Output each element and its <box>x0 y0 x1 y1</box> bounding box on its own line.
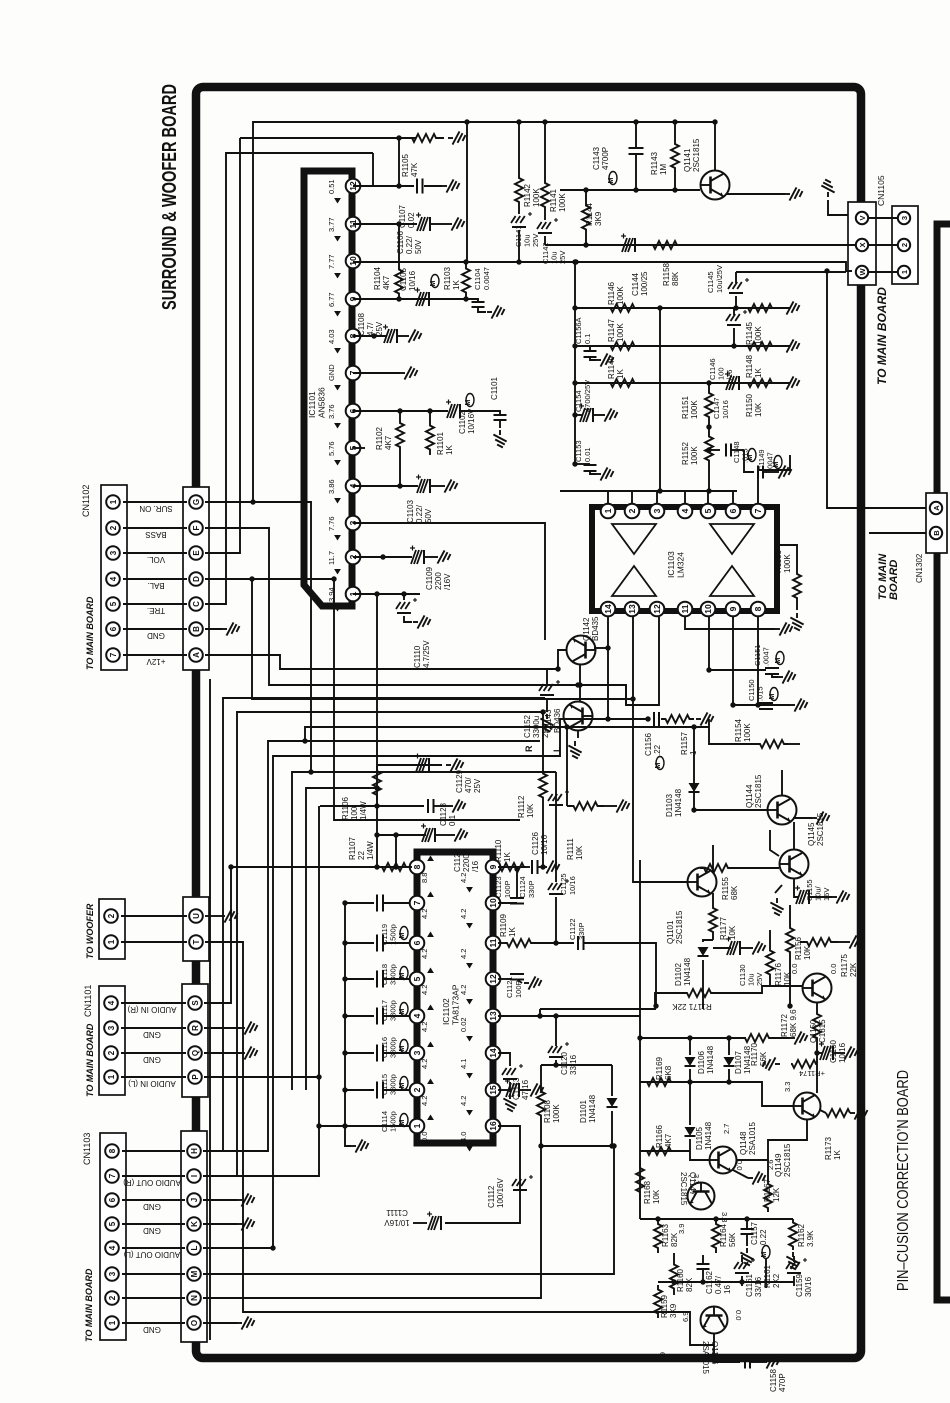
pin IC1101-2 <box>346 550 361 565</box>
svg-text:Q1144: Q1144 <box>745 784 754 808</box>
svg-text:12: 12 <box>652 604 662 614</box>
resistor R1162 3.9K <box>789 1219 797 1250</box>
svg-text:4.2: 4.2 <box>459 985 468 995</box>
pin IC1103-1 <box>601 504 616 519</box>
svg-text:D1107: D1107 <box>734 1050 743 1074</box>
resistor R1175 22K <box>800 938 838 946</box>
capacitor C1151 .0047 <box>765 667 779 669</box>
svg-text:C1157: C1157 <box>750 1221 759 1245</box>
ground below C1157 <box>740 1248 753 1266</box>
wire R1152 down <box>708 470 710 491</box>
svg-text:56K: 56K <box>728 1232 737 1247</box>
svg-text:GND: GND <box>143 1055 161 1064</box>
connector CN1103 pin 4 <box>105 1241 119 1255</box>
wire vertical x396 <box>395 835 397 867</box>
svg-text:0.1: 0.1 <box>583 334 592 344</box>
ground right of C1155 <box>810 896 832 898</box>
svg-text:C1159: C1159 <box>795 1273 804 1297</box>
svg-text:K: K <box>190 1221 199 1227</box>
svg-text:1N4148: 1N4148 <box>706 1045 715 1074</box>
resistor R1167 12K <box>767 1160 769 1180</box>
svg-text:3: 3 <box>108 1271 117 1276</box>
svg-text:2SC1815: 2SC1815 <box>754 774 763 808</box>
resistor R1154 100K <box>709 719 756 744</box>
svg-text:PIN–CUSION CORRECTIO’N BOARD: PIN–CUSION CORRECTIO’N BOARD <box>895 1070 912 1291</box>
wire pin10 down <box>708 617 710 670</box>
svg-text:7: 7 <box>753 508 763 513</box>
svg-text:2SC1815: 2SC1815 <box>692 138 701 172</box>
wire pin10 rail <box>353 262 852 271</box>
svg-text:12: 12 <box>488 974 498 984</box>
wire CN1105 V-row <box>862 217 905 219</box>
svg-text:1/4W: 1/4W <box>359 801 368 820</box>
wire rail2 y1082 <box>640 1082 794 1106</box>
svg-text:BASS: BASS <box>145 530 166 539</box>
svg-text:A: A <box>932 505 941 511</box>
junction <box>463 259 468 264</box>
pin IC1102-11 <box>486 936 501 951</box>
pin IC1102-16 <box>486 1119 501 1134</box>
svg-text:R1175: R1175 <box>840 953 849 977</box>
svg-text:2K2: 2K2 <box>772 1273 781 1288</box>
connector CN1103 pin 3 <box>105 1267 119 1281</box>
wire rail y806 <box>320 805 424 807</box>
svg-text:C1103: C1103 <box>406 499 415 523</box>
wire ladder left vertical <box>574 262 576 464</box>
svg-text:C1105: C1105 <box>399 267 408 291</box>
junction <box>573 259 578 264</box>
ground right of C1104 <box>487 305 505 318</box>
svg-text:4.7/25V: 4.7/25V <box>422 640 431 668</box>
capacitor C1128 0.1 <box>427 799 429 813</box>
connector CN1302 box <box>926 493 947 553</box>
svg-text:C1129: C1129 <box>455 769 464 793</box>
svg-text:+12V: +12V <box>146 657 166 666</box>
svg-text:R1109: R1109 <box>499 913 508 937</box>
wire x556 vertical <box>555 772 557 882</box>
wire bus C net <box>205 153 373 604</box>
svg-text:Q1142: Q1142 <box>582 617 591 641</box>
pin IC1103-9 <box>726 602 741 617</box>
node F <box>189 521 203 535</box>
diode D1106 1N4148 <box>685 1057 696 1066</box>
pin IC1101-10 <box>346 254 361 269</box>
capacitor C1112 100/16V <box>513 1189 527 1191</box>
svg-text:3.3: 3.3 <box>720 1212 729 1222</box>
wire R1171 net <box>540 993 684 1009</box>
svg-text:100K: 100K <box>616 286 625 305</box>
svg-text:R1148: R1148 <box>745 354 754 378</box>
capacitor C1142 10u 25V <box>544 215 546 220</box>
junction <box>516 259 521 264</box>
svg-text:M: M <box>773 462 780 468</box>
wire pin13 down <box>633 617 687 882</box>
svg-text:0.47/: 0.47/ <box>714 1275 723 1294</box>
resistor R1168 10K <box>636 1160 644 1200</box>
capacitor C1121 100P <box>510 973 524 975</box>
wire CN1103 pin 8 <box>122 1150 185 1152</box>
wire pin3 net <box>353 523 545 640</box>
op-amp B triangle (IC1103) <box>710 524 754 554</box>
capacitor C1114 1500p <box>384 1089 410 1091</box>
ground right of C1158 <box>762 1355 780 1368</box>
svg-text:4K7: 4K7 <box>664 1133 673 1148</box>
svg-text:U: U <box>192 913 201 919</box>
svg-text:1K: 1K <box>616 369 625 379</box>
svg-text:3: 3 <box>900 216 909 220</box>
junction <box>396 135 401 140</box>
ground right of C1129 <box>446 758 464 771</box>
capacitor C1106 0.22/50V <box>429 217 431 231</box>
wire rail4 y1219 <box>640 1218 793 1220</box>
capacitor C1110 4.7/25V <box>403 594 405 600</box>
resistor R1158 88K <box>642 241 688 249</box>
connector CN1102 pin 3 <box>106 546 120 560</box>
wire rail y705 <box>733 704 790 706</box>
svg-text:56K: 56K <box>759 1051 768 1066</box>
resistor R1101 1K <box>429 411 431 420</box>
ground Q1145 <box>775 885 782 893</box>
svg-text:R1106: R1106 <box>341 796 350 820</box>
ground at node B <box>205 628 222 630</box>
svg-text:4.2: 4.2 <box>459 873 468 883</box>
pin IC1101-1 <box>346 587 361 602</box>
svg-text:13: 13 <box>488 1011 498 1021</box>
svg-text:C1127: C1127 <box>453 848 462 872</box>
node I <box>187 1169 201 1183</box>
op-amp IC1101 AN5836 outline <box>304 171 352 606</box>
svg-text:2: 2 <box>627 508 637 513</box>
wire Q1141 emitter <box>726 193 785 195</box>
svg-text:CN1102: CN1102 <box>81 485 91 517</box>
svg-text:R1162: R1162 <box>797 1223 806 1247</box>
pin IC1103-13 <box>625 602 640 617</box>
svg-text:4: 4 <box>107 1000 116 1005</box>
wire C1106 to ground <box>431 223 447 225</box>
diode D1103 1N4148 <box>693 727 695 810</box>
svg-text:10/16: 10/16 <box>540 834 549 855</box>
pin IC1101-11 <box>346 217 361 232</box>
svg-text:33/16: 33/16 <box>754 1276 763 1297</box>
pin IC1102-9 <box>486 860 501 875</box>
svg-text:4: 4 <box>108 1245 117 1250</box>
wire pin11 net <box>353 223 417 225</box>
pin IC1102-1 <box>410 1119 425 1134</box>
wire C1107 to ground <box>424 185 442 187</box>
capacitor C1118 3300p <box>384 942 410 944</box>
wire CN1102 pin 5 <box>123 603 187 605</box>
wire rail D y491 <box>560 490 737 492</box>
svg-text:R1172: R1172 <box>780 1013 789 1037</box>
node U <box>189 909 203 923</box>
wire Q1143 out <box>592 718 650 720</box>
svg-text:S: S <box>191 1000 200 1006</box>
svg-text:R1167: R1167 <box>763 1178 772 1202</box>
ground pin11 <box>775 622 793 635</box>
svg-text:2SC1815: 2SC1815 <box>783 1143 792 1177</box>
transistor Q1142 BD435 <box>567 636 596 665</box>
svg-text:0.0: 0.0 <box>790 964 799 974</box>
svg-text:1: 1 <box>412 1123 422 1128</box>
wire left rail x210 <box>209 679 211 1340</box>
svg-text:C1143: C1143 <box>592 146 601 170</box>
resistor R1169 zigzag <box>644 1078 674 1086</box>
svg-text:10K: 10K <box>754 402 763 417</box>
board outline PIN-CUSION CORRECTION BOARD <box>937 224 950 1300</box>
wire CN1103 pin 5 <box>122 1223 185 1225</box>
pin IC1103-5 <box>701 504 716 519</box>
svg-text:Q1101: Q1101 <box>666 920 675 944</box>
wire rail C y383 <box>575 382 790 384</box>
wire bus S net <box>204 867 231 1003</box>
pin IC1103-2 <box>625 504 640 519</box>
svg-text:0.22: 0.22 <box>759 1229 768 1245</box>
svg-text:25V: 25V <box>473 778 482 793</box>
svg-text:X: X <box>858 242 867 247</box>
svg-text:R1159: R1159 <box>660 1294 669 1318</box>
capacitor C1158 470P <box>714 1334 740 1362</box>
wire woofer pin 2 <box>121 915 187 917</box>
connector CN1103 pin 1 <box>105 1316 119 1330</box>
svg-text:SUR. ON: SUR. ON <box>139 504 173 513</box>
wire q1144 base <box>694 809 767 811</box>
ground below R1162 <box>786 1252 799 1270</box>
wire Q1101 collector <box>712 845 714 872</box>
wire bus N net <box>203 1146 541 1298</box>
svg-text:5: 5 <box>412 976 422 981</box>
wire CN1101 pin 1 <box>121 1076 186 1078</box>
svg-text:R1107: R1107 <box>348 836 357 860</box>
svg-text:M: M <box>769 694 776 700</box>
svg-text:C1106: C1106 <box>396 230 405 254</box>
wire rail B y346 <box>575 345 790 347</box>
capacitor C1160 10/16 <box>817 1052 823 1054</box>
capacitor C1150 .015 <box>759 702 773 704</box>
svg-text:10K: 10K <box>652 1189 661 1204</box>
svg-text:TO MAIN BOARD: TO MAIN BOARD <box>84 1268 94 1342</box>
svg-text:R1101: R1101 <box>436 431 445 455</box>
wire vert x640 <box>639 860 641 1038</box>
svg-text:+R1174: +R1174 <box>799 1069 825 1078</box>
svg-text:25V: 25V <box>755 973 764 986</box>
connector CN1102 outer box <box>101 485 127 670</box>
resistor R1169 6K8 <box>639 1038 641 1082</box>
resistor R1102 4K7 <box>399 411 401 418</box>
svg-text:R1157: R1157 <box>680 731 689 755</box>
wire CN1102 pin 1 <box>123 501 187 503</box>
ground at pin7 <box>400 366 418 379</box>
junction <box>396 183 401 188</box>
svg-text:C1156A: C1156A <box>574 317 583 344</box>
svg-text:2.7: 2.7 <box>722 1124 731 1134</box>
resistor R1106 100 1/4W <box>373 766 381 800</box>
svg-text:4.2: 4.2 <box>420 985 429 995</box>
svg-text:C1125: C1125 <box>559 873 568 895</box>
svg-text:1: 1 <box>108 1320 117 1325</box>
svg-text:A: A <box>192 652 201 658</box>
svg-text:1M: 1M <box>659 164 668 175</box>
connector CN1102 inner box <box>183 487 209 670</box>
wire pin12 net <box>353 185 414 187</box>
resistor R1150 10K <box>742 379 778 387</box>
svg-text:R1171 22K: R1171 22K <box>672 1002 712 1011</box>
svg-text:C1112: C1112 <box>487 1185 496 1208</box>
svg-text:3: 3 <box>412 1050 422 1055</box>
node K <box>187 1217 201 1231</box>
svg-text:D1106: D1106 <box>697 1050 706 1074</box>
junction <box>396 221 401 226</box>
svg-text:3: 3 <box>109 550 118 555</box>
wire x660 vertical <box>659 308 661 491</box>
svg-text:R1163: R1163 <box>661 1223 670 1247</box>
ground Q1148 emitter <box>733 1170 748 1178</box>
capacitor C1122 330P <box>577 936 579 950</box>
node N <box>187 1291 201 1305</box>
node V <box>856 212 868 224</box>
capacitor C1148 .015 <box>709 449 720 451</box>
svg-text:1: 1 <box>900 270 909 274</box>
wire bus I net <box>203 806 319 1176</box>
svg-text:9: 9 <box>488 864 498 869</box>
wire pin14 row <box>498 1053 510 1066</box>
svg-text:R: R <box>524 745 534 752</box>
ground right of C1106 <box>447 217 465 230</box>
wire pin8 row <box>231 866 412 868</box>
svg-text:M: M <box>608 178 615 184</box>
resistor R1105 47K <box>404 134 444 142</box>
svg-text:15: 15 <box>488 1085 498 1095</box>
op-amp C triangle (IC1103) <box>612 566 656 596</box>
svg-text:M: M <box>399 933 406 939</box>
svg-text:25V: 25V <box>558 251 567 264</box>
svg-text:100K: 100K <box>743 723 752 742</box>
svg-text:2SC1815: 2SC1815 <box>679 1172 688 1206</box>
svg-text:R1151: R1151 <box>681 395 690 419</box>
svg-text:.015: .015 <box>756 686 765 701</box>
wire R1112 down <box>542 806 544 867</box>
node R <box>188 1021 202 1035</box>
svg-text:C1126: C1126 <box>531 831 540 855</box>
resistor R1153 100K <box>779 545 797 568</box>
svg-text:3300p: 3300p <box>389 1037 398 1058</box>
svg-text:2200: 2200 <box>434 572 443 590</box>
svg-text:M: M <box>747 455 754 461</box>
wire Q1148 base <box>690 1151 709 1160</box>
svg-text:O: O <box>190 1320 199 1326</box>
svg-text:R1111: R1111 <box>566 838 575 860</box>
pin IC1102-15 <box>486 1083 501 1098</box>
svg-text:12K: 12K <box>772 1187 781 1202</box>
ground right of C1124 <box>542 860 560 873</box>
capacitor C1143 4700P <box>635 122 637 147</box>
resistor R1160 82K <box>673 1253 675 1258</box>
wire Q1142 to pin14 <box>594 647 608 649</box>
svg-text:3.9K: 3.9K <box>806 1230 815 1247</box>
wire bus ghost2 <box>334 579 520 820</box>
svg-text:R1166: R1166 <box>655 1124 664 1148</box>
svg-text:13: 13 <box>627 604 637 614</box>
svg-text:BOARD: BOARD <box>888 560 900 600</box>
wire CN1105 W to CN1302 <box>827 271 926 508</box>
node E <box>189 546 203 560</box>
transistor Q1147 2SC1815 <box>688 1183 715 1210</box>
wire bus E net <box>205 138 240 553</box>
svg-text:100K: 100K <box>690 446 699 465</box>
wire CN1103 pin 6 <box>122 1199 185 1201</box>
pin IC1103-12 <box>650 602 665 617</box>
resistor R1110 1K <box>498 863 526 871</box>
svg-text:4: 4 <box>680 508 690 513</box>
svg-text:C1110: C1110 <box>413 645 422 668</box>
svg-text:BD435: BD435 <box>591 616 600 641</box>
svg-text:9: 9 <box>728 606 738 611</box>
ground at node O <box>203 1322 237 1324</box>
capacitor C1145 10u/25V <box>736 271 846 273</box>
wire CN1103 pin 7 <box>122 1175 185 1177</box>
diode D1102 1N4148 <box>703 940 713 942</box>
pin IC1101-4 <box>346 479 361 494</box>
resistor R1171 22K zigzag <box>684 989 714 997</box>
svg-text:C1124: C1124 <box>518 876 527 898</box>
svg-text:1N4148: 1N4148 <box>683 957 692 986</box>
svg-text:GND: GND <box>143 1325 161 1334</box>
svg-text:2: 2 <box>108 1295 117 1300</box>
wire CN1102 pin 6 <box>123 628 187 630</box>
wire bus M net <box>203 1146 614 1274</box>
svg-text:10K: 10K <box>526 803 535 818</box>
ground right of C1108 <box>398 335 404 337</box>
wire pin6 net <box>353 410 448 412</box>
pin IC1103-10 <box>701 602 716 617</box>
transistor Q1149 2SC1815 <box>794 1093 821 1120</box>
wire pin9 row <box>498 866 526 868</box>
node X <box>856 239 868 251</box>
svg-text:7: 7 <box>108 1173 117 1178</box>
wire Q1141 collector <box>714 122 716 170</box>
junction <box>270 1245 275 1250</box>
capacitor C1111 10/16V <box>440 1216 442 1230</box>
svg-text:CN1302: CN1302 <box>915 553 924 583</box>
svg-text:2: 2 <box>107 1050 116 1055</box>
svg-text:2: 2 <box>107 913 116 918</box>
ground right of R1157 <box>696 712 714 725</box>
svg-text:4.2: 4.2 <box>420 949 429 959</box>
svg-text:M: M <box>399 1009 406 1015</box>
wire pin7 gnd <box>353 372 400 374</box>
svg-text:1N4148: 1N4148 <box>743 1045 752 1074</box>
node M <box>187 1267 201 1281</box>
connector CN1102 pin 5 <box>106 597 120 611</box>
svg-text:1: 1 <box>107 939 116 944</box>
wire cap chain rail <box>344 903 346 1126</box>
svg-text:R1152: R1152 <box>681 441 690 465</box>
wire CN1103 pin 3 <box>122 1273 185 1275</box>
svg-text:2: 2 <box>109 525 118 530</box>
svg-text:GND: GND <box>147 631 165 640</box>
capacitor C1155 10u/16V <box>794 879 798 897</box>
wire CN1102 pin 4 <box>123 578 187 580</box>
svg-text:R1158: R1158 <box>662 262 671 286</box>
pin IC1101-5 <box>346 441 361 456</box>
svg-text:4.2: 4.2 <box>459 949 468 959</box>
wire CN1102 pin 2 <box>123 527 187 529</box>
connector CN1105 pin 1 <box>898 266 910 278</box>
resistor R1107 22 1/4W <box>378 863 410 871</box>
connector CN1102 pin 6 <box>106 622 120 636</box>
svg-text:M: M <box>775 658 782 664</box>
svg-text:10: 10 <box>703 604 713 614</box>
pin IC1103-11 <box>678 602 693 617</box>
